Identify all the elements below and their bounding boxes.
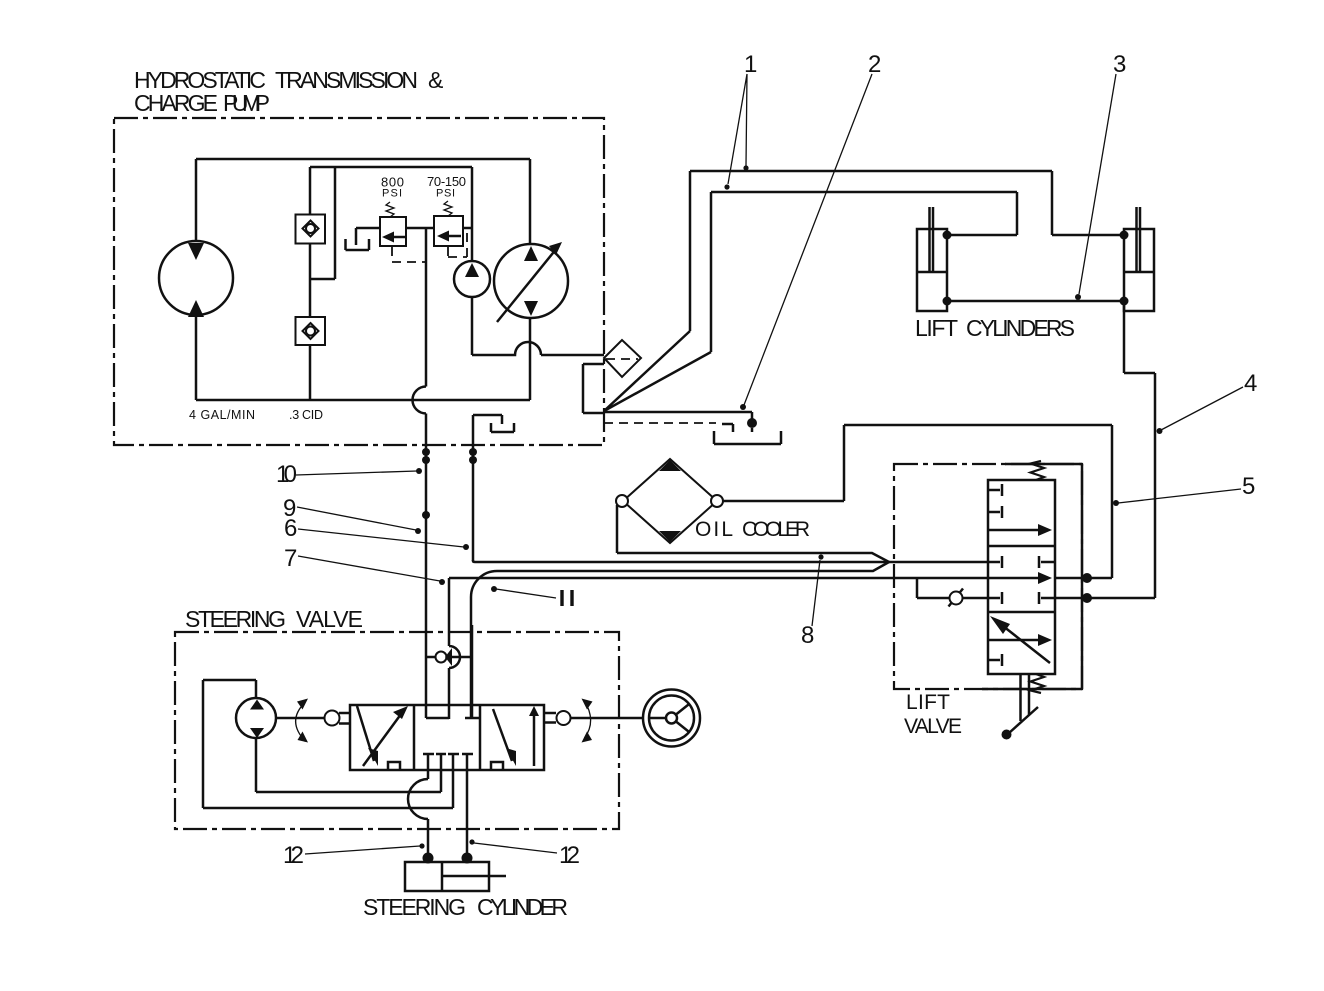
svg-text:12: 12: [283, 842, 304, 869]
svg-text:.3 CID: .3 CID: [289, 408, 323, 422]
svg-text:VALVE: VALVE: [904, 715, 962, 738]
svg-text:CYLINDER: CYLINDER: [477, 894, 568, 920]
svg-text:8: 8: [801, 622, 814, 649]
svg-text:LIFT: LIFT: [906, 691, 950, 714]
svg-text:12: 12: [559, 842, 580, 869]
svg-text:9: 9: [283, 495, 296, 522]
svg-text:TRANSMISSION: TRANSMISSION: [275, 67, 418, 93]
svg-text:&: &: [428, 67, 443, 93]
svg-text:COOLER: COOLER: [742, 518, 810, 541]
svg-text:4 GAL/MIN: 4 GAL/MIN: [189, 408, 255, 422]
svg-text:PSI: PSI: [436, 188, 455, 200]
svg-text:2: 2: [868, 51, 881, 78]
svg-text:PUMP: PUMP: [223, 90, 270, 116]
svg-text:OIL: OIL: [695, 518, 733, 541]
svg-text:7: 7: [284, 545, 297, 572]
svg-text:4: 4: [1244, 370, 1257, 397]
svg-text:CHARGE: CHARGE: [134, 90, 218, 116]
svg-text:LIFT: LIFT: [915, 315, 958, 341]
svg-text:3: 3: [1113, 51, 1126, 78]
svg-text:STEERING: STEERING: [185, 606, 286, 632]
svg-text:PSI: PSI: [382, 188, 402, 200]
svg-text:VALVE: VALVE: [296, 606, 363, 632]
svg-text:10: 10: [276, 461, 297, 488]
svg-text:1: 1: [744, 51, 757, 78]
svg-text:CYLINDERS: CYLINDERS: [966, 315, 1075, 341]
svg-text:5: 5: [1242, 473, 1255, 500]
svg-text:STEERING: STEERING: [363, 894, 466, 920]
